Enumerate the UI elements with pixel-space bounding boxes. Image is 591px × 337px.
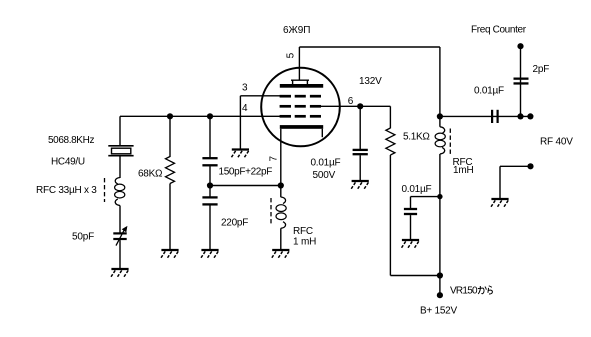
svg-text:RFC: RFC xyxy=(293,226,313,237)
svg-text:132V: 132V xyxy=(359,76,382,87)
svg-text:Freq Counter: Freq Counter xyxy=(471,25,527,36)
svg-text:2pF: 2pF xyxy=(533,64,550,75)
svg-text:1mH: 1mH xyxy=(453,165,474,176)
svg-text:6Ж9П: 6Ж9П xyxy=(283,25,310,36)
svg-text:7: 7 xyxy=(269,156,280,162)
svg-text:150pF+22pF: 150pF+22pF xyxy=(219,167,273,178)
svg-text:50pF: 50pF xyxy=(72,232,94,243)
svg-text:5.1KΩ: 5.1KΩ xyxy=(403,131,430,142)
svg-text:4: 4 xyxy=(242,103,248,114)
svg-text:220pF: 220pF xyxy=(221,218,248,229)
svg-text:B+ 152V: B+ 152V xyxy=(420,306,457,317)
svg-text:0.01µF: 0.01µF xyxy=(474,86,504,97)
svg-text:3: 3 xyxy=(242,82,248,93)
svg-text:0.01µF: 0.01µF xyxy=(402,184,432,195)
svg-text:RF 40V: RF 40V xyxy=(540,136,573,147)
svg-text:5068.8KHz: 5068.8KHz xyxy=(48,135,94,146)
svg-text:68KΩ: 68KΩ xyxy=(138,168,163,179)
svg-text:500V: 500V xyxy=(313,170,336,181)
svg-text:RFC 33µH x 3: RFC 33µH x 3 xyxy=(36,185,97,196)
svg-text:0.01µF: 0.01µF xyxy=(311,157,341,168)
svg-text:1 mH: 1 mH xyxy=(293,237,316,248)
svg-text:6: 6 xyxy=(348,96,354,107)
svg-text:VR150: VR150 xyxy=(450,285,478,296)
svg-text:5: 5 xyxy=(286,52,297,58)
svg-text:HC49/U: HC49/U xyxy=(51,156,85,167)
